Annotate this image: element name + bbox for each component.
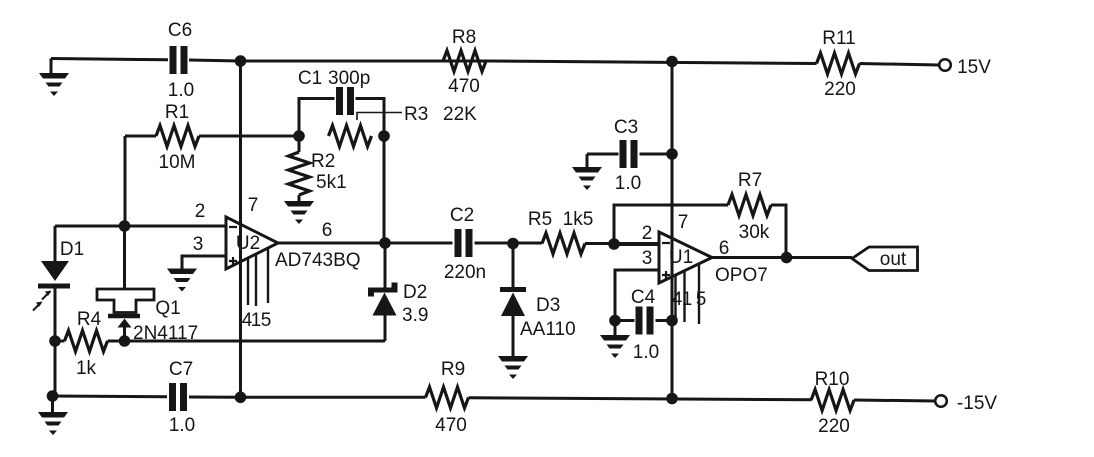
wire D3 top lead	[512, 244, 515, 288]
svg-text:6: 6	[719, 238, 730, 259]
svg-text:3: 3	[642, 248, 653, 269]
U1 pin stubs 4 1 5	[676, 264, 700, 324]
transistor Q1 channel bar	[108, 314, 140, 319]
svg-text:R10: R10	[815, 369, 850, 390]
resistor R4	[65, 331, 108, 352]
svg-text:2N4117: 2N4117	[133, 323, 198, 344]
svg-text:U1: U1	[669, 247, 693, 268]
wire R4 leads	[55, 340, 125, 343]
wire ground stub bottom-left	[51, 396, 54, 412]
svg-text:22K: 22K	[443, 104, 477, 125]
diode D3	[500, 287, 526, 292]
svg-text:C3: C3	[614, 117, 638, 138]
svg-text:C6: C6	[168, 20, 192, 41]
svg-text:2: 2	[195, 201, 206, 222]
junction U1 output / R7	[781, 252, 793, 264]
junction U2 output / D2 / feedback	[379, 237, 391, 249]
wire R1 left leg down to input node	[124, 136, 127, 226]
svg-text:2: 2	[642, 223, 653, 244]
U2 pin stubs 4 1 5	[248, 248, 268, 306]
wire U2 output row	[278, 242, 659, 246]
wire bottom rail	[52, 396, 936, 401]
photodiode D1	[41, 261, 69, 281]
wire Q1 gate lead	[123, 226, 126, 289]
svg-text:C1: C1	[298, 68, 322, 89]
wire U1 inverting input row	[614, 243, 659, 246]
ground symbol top-left	[39, 73, 69, 96]
svg-text:30k: 30k	[739, 222, 770, 243]
U2 supply line through body	[239, 224, 242, 262]
wire left branch down to bottom rail	[54, 341, 57, 397]
wire D2 top lead	[384, 243, 387, 288]
junction D1/R4/ground branch	[49, 335, 61, 347]
svg-text:OPO7: OPO7	[715, 265, 768, 286]
svg-text:470: 470	[435, 415, 467, 436]
capacitor C1	[336, 87, 343, 115]
leader line R3 label	[357, 113, 402, 121]
svg-text:R9: R9	[441, 359, 465, 380]
op-amp U1	[659, 232, 712, 283]
junction bottom rail left	[47, 390, 59, 402]
svg-text:R11: R11	[822, 28, 855, 49]
wire U1 supply vertical	[671, 61, 674, 397]
capacitor C2	[455, 229, 462, 257]
junction bottom rail / U2 supply line	[235, 392, 247, 404]
wire D1 bottom lead	[54, 288, 57, 341]
svg-text:R1: R1	[165, 102, 189, 123]
svg-text:D1: D1	[60, 239, 84, 260]
wire R2 top lead	[298, 136, 301, 152]
junction node R1/R2/R3/C1	[293, 130, 305, 142]
wire C3 row	[587, 153, 672, 156]
svg-text:1.0: 1.0	[615, 173, 641, 194]
junction top rail / U2 supply line	[235, 55, 247, 67]
wire D1 top lead	[54, 226, 57, 261]
svg-text:5k1: 5k1	[316, 172, 347, 193]
svg-text:300p: 300p	[328, 68, 370, 89]
svg-text:220: 220	[818, 416, 850, 437]
light arrows into D1	[33, 292, 50, 311]
wire R7 row	[614, 205, 786, 252]
svg-text:220n: 220n	[444, 262, 486, 283]
U1 minus sign	[662, 242, 670, 244]
svg-text:R4: R4	[77, 309, 102, 330]
svg-text:1k: 1k	[76, 358, 97, 379]
junction bottom rail / U1 supply line	[666, 393, 678, 405]
svg-text:R8: R8	[452, 27, 476, 48]
ground symbol bottom-left	[38, 412, 68, 435]
svg-text:C7: C7	[169, 359, 193, 380]
ground symbol below U1 pin3	[600, 335, 630, 358]
junction C3 / U1 supply line	[666, 148, 678, 160]
U1 plus sign	[662, 271, 670, 279]
junction top rail / U1 supply line	[666, 56, 678, 68]
svg-text:-15V: -15V	[957, 393, 997, 414]
svg-text:7: 7	[678, 212, 689, 233]
ground symbol below R2	[284, 201, 314, 224]
junction node R3/C1/feedback	[378, 130, 390, 142]
resistor R7	[728, 195, 771, 216]
svg-text:R2: R2	[311, 151, 335, 172]
svg-text:AD743BQ: AD743BQ	[275, 250, 361, 271]
resistor R10	[811, 390, 854, 411]
svg-text:1: 1	[251, 310, 262, 331]
wire U1 non-inverting input branch	[615, 270, 659, 321]
wire U1 output row	[712, 256, 852, 259]
terminal -15V	[935, 395, 947, 407]
svg-text:out: out	[880, 249, 907, 270]
junction C4 / U1 supply line	[666, 315, 678, 327]
junction node D1/R1/Q1 gate/U2 pin2	[119, 220, 131, 232]
svg-text:Q1: Q1	[155, 298, 180, 319]
wire row to D2 anode	[125, 340, 386, 343]
transistor Q1 source arrow	[118, 319, 132, 328]
resistor R11	[817, 53, 860, 74]
svg-text:5: 5	[261, 310, 272, 331]
svg-text:220: 220	[824, 79, 856, 100]
terminal +15V	[939, 59, 951, 71]
svg-text:1k5: 1k5	[563, 209, 594, 230]
wire feedback vertical to U2 output	[383, 136, 386, 243]
junction R4/Q1 source	[119, 335, 131, 347]
transistor Q1 body outline	[97, 289, 154, 313]
resistor R1	[156, 126, 199, 147]
capacitor C4	[636, 307, 643, 335]
U2 minus sign	[229, 226, 237, 228]
resistor R2	[289, 152, 310, 195]
svg-text:3: 3	[193, 234, 204, 255]
svg-text:3.9: 3.9	[402, 305, 428, 326]
svg-text:1: 1	[682, 289, 693, 310]
svg-text:R7: R7	[738, 170, 762, 191]
ground symbol left of C3	[572, 167, 602, 190]
capacitor C3	[620, 140, 627, 168]
svg-text:C4: C4	[631, 287, 656, 308]
junction U1 pin3 / C4 / ground	[609, 315, 621, 327]
svg-text:R3: R3	[404, 104, 428, 125]
resistor R5	[542, 233, 585, 254]
svg-text:D2: D2	[403, 282, 427, 303]
junction R5/U1 pin2/R7	[608, 238, 620, 250]
capacitor C6	[170, 46, 177, 74]
svg-text:1.0: 1.0	[633, 342, 659, 363]
svg-text:D3: D3	[536, 295, 560, 316]
svg-text:470: 470	[448, 76, 480, 97]
capacitor C7	[169, 383, 176, 411]
ground symbol below D3	[498, 356, 528, 379]
resistor R3	[329, 126, 372, 147]
svg-text:C2: C2	[450, 205, 474, 226]
resistor R8	[443, 51, 486, 72]
wire U2 supply vertical	[239, 61, 242, 397]
svg-text:7: 7	[248, 195, 259, 216]
zener diode D2	[368, 283, 398, 297]
ground top-left	[50, 59, 53, 74]
wire C4 ground stub	[614, 321, 617, 336]
svg-text:10M: 10M	[159, 152, 196, 173]
wire C4 leads	[615, 319, 672, 322]
svg-text:15V: 15V	[957, 57, 991, 78]
wire C3 ground stub	[586, 154, 589, 167]
wire C1 loop	[299, 99, 384, 137]
wire U2 non-inverting input + ground branch	[182, 256, 226, 269]
svg-text:R5: R5	[528, 209, 552, 230]
svg-text:1.0: 1.0	[169, 415, 195, 436]
resistor R9	[426, 387, 469, 408]
U2 plus sign	[229, 257, 237, 265]
ground symbol U2 pin3	[167, 269, 197, 292]
wire R2 bottom lead	[298, 195, 301, 201]
wire top rail	[51, 59, 939, 66]
wire R1 row	[125, 135, 299, 138]
junction C2/R5/D3	[507, 238, 519, 250]
op-amp U2	[226, 217, 278, 269]
out terminal tag	[852, 247, 918, 271]
svg-text:AA110: AA110	[520, 319, 576, 340]
wire U2 inverting input row	[55, 225, 226, 228]
svg-text:1.0: 1.0	[168, 80, 194, 101]
svg-text:U2: U2	[236, 233, 260, 254]
U1 supply line through body	[671, 238, 674, 277]
svg-text:5: 5	[696, 289, 707, 310]
svg-text:6: 6	[322, 220, 333, 241]
